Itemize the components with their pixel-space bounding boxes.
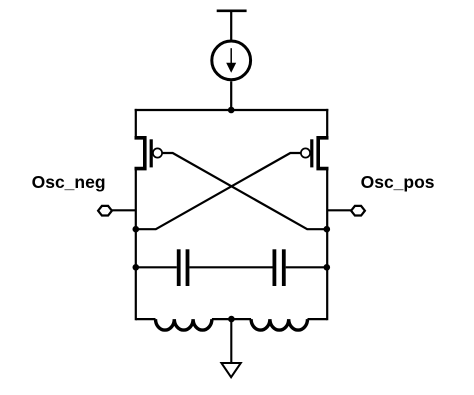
svg-text:Osc_neg: Osc_neg [32,172,106,192]
svg-text:Osc_pos: Osc_pos [361,172,435,192]
